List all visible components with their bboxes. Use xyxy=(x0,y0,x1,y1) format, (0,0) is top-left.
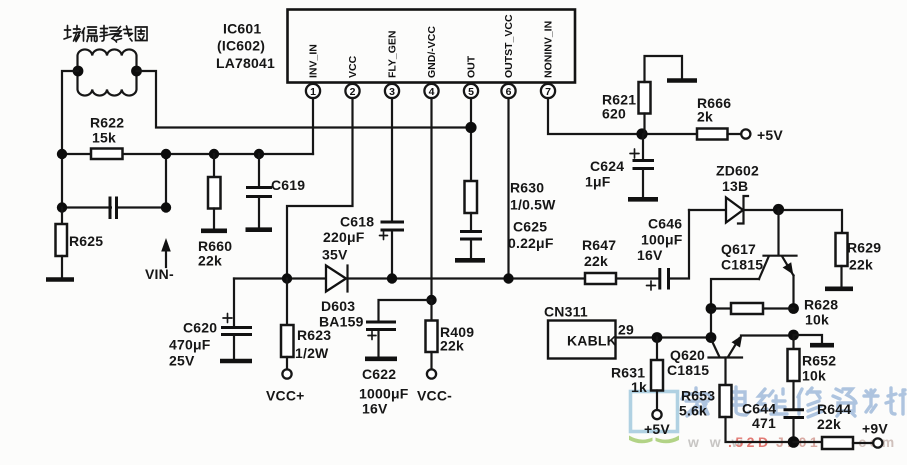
resistor R625 body xyxy=(56,224,68,256)
wire C644 bottom xyxy=(792,419,794,442)
terminal +5V top xyxy=(741,129,750,138)
svg-text:ZD602: ZD602 xyxy=(716,163,759,179)
wire rail C646 right segment xyxy=(616,277,659,279)
svg-text:C646: C646 xyxy=(648,216,682,232)
wire main top rail xyxy=(62,153,313,155)
wire R644 to terminal xyxy=(853,442,873,444)
svg-text:VCC: VCC xyxy=(347,55,359,78)
svg-text:4: 4 xyxy=(429,86,435,98)
resistor R666 body xyxy=(697,129,728,140)
capacitor C619 plates xyxy=(246,188,272,197)
wire R652 to C644 xyxy=(792,381,794,408)
svg-text:1: 1 xyxy=(310,86,316,98)
coil label 场偏转线圈 xyxy=(64,26,147,43)
svg-text:OUT: OUT xyxy=(466,55,478,78)
svg-text:10k: 10k xyxy=(802,368,826,384)
node main rail C619 xyxy=(254,149,264,159)
watermark logo book icon xyxy=(629,392,679,444)
svg-text:22k: 22k xyxy=(849,257,873,273)
capacitor C644 plates xyxy=(784,410,805,418)
transistor Q617 xyxy=(759,210,797,310)
node bottom rail xyxy=(788,436,800,448)
wire coil left to main rail xyxy=(62,71,78,154)
capacitor C646 plates xyxy=(660,268,669,290)
C624 polarity + xyxy=(630,149,639,158)
resistor R621 body xyxy=(639,82,651,114)
wire vcc rail xyxy=(234,277,585,279)
svg-text:1μF: 1μF xyxy=(585,174,611,190)
VIN- input arrow xyxy=(161,238,171,252)
node pin5 coil junction xyxy=(465,122,476,133)
node Q620 emitter line xyxy=(788,330,799,341)
svg-text:C1815: C1815 xyxy=(721,257,763,273)
pin 6 circle xyxy=(501,84,515,98)
wire R625 bottom xyxy=(61,256,63,278)
wire R660 bottom xyxy=(213,209,215,229)
pin 5 circle xyxy=(464,84,478,98)
svg-text:5.6k: 5.6k xyxy=(679,403,707,419)
svg-text:C619: C619 xyxy=(271,177,305,193)
pin 7 circle xyxy=(541,84,555,98)
svg-text:471: 471 xyxy=(752,415,776,431)
zener diode ZD602 xyxy=(726,196,748,224)
wire ground stub xyxy=(794,335,823,343)
svg-text:C625: C625 xyxy=(513,219,547,235)
svg-text:2: 2 xyxy=(350,86,356,98)
svg-text:1/0.5W: 1/0.5W xyxy=(510,197,556,213)
node R628 right xyxy=(788,303,799,314)
wire C620 bottom xyxy=(233,336,235,359)
pin 3 circle xyxy=(385,84,399,98)
svg-text:22k: 22k xyxy=(440,338,464,354)
svg-text:R652: R652 xyxy=(802,353,836,369)
node rail R623 xyxy=(282,273,292,283)
C646 polarity + xyxy=(647,281,656,290)
terminal +5V bottom xyxy=(652,410,661,419)
wire R652 top xyxy=(792,335,794,349)
wire C624 bottom xyxy=(642,170,644,197)
pin 4 circle xyxy=(424,84,438,98)
wire R625 top xyxy=(61,208,63,225)
wire R409 top xyxy=(430,300,432,321)
svg-text:1000μF: 1000μF xyxy=(359,386,409,402)
ground below R625 xyxy=(46,277,74,282)
svg-text:CN311: CN311 xyxy=(544,304,588,320)
svg-text:R622: R622 xyxy=(90,115,124,131)
svg-text:C618: C618 xyxy=(340,214,374,230)
svg-text:+5V: +5V xyxy=(757,127,783,143)
svg-text:3: 3 xyxy=(389,86,395,98)
wire R666 to terminal xyxy=(728,133,742,135)
svg-text:10k: 10k xyxy=(805,312,829,328)
svg-text:22k: 22k xyxy=(584,253,608,269)
wire R621 bottom xyxy=(643,114,645,135)
svg-text:R629: R629 xyxy=(847,240,881,256)
wire R621 top to ground xyxy=(645,56,683,82)
svg-text:C1815: C1815 xyxy=(667,362,709,378)
ground stub bar xyxy=(810,343,834,348)
terminal VCC- xyxy=(427,369,436,378)
resistor R623 body xyxy=(281,325,294,357)
resistor R644 body xyxy=(822,437,853,449)
wire R628 leads xyxy=(711,307,794,309)
wire pin5 down xyxy=(470,98,472,181)
wire vin vertical xyxy=(165,154,167,208)
wire R409 bottom xyxy=(430,352,432,370)
svg-text:R623: R623 xyxy=(297,327,331,343)
resistor R652 body xyxy=(788,349,800,381)
capacitor C624 plates xyxy=(633,161,655,169)
capacitor C625 plates xyxy=(460,232,482,240)
wire R630 to C625 xyxy=(470,213,472,230)
ground below R629 xyxy=(825,286,853,291)
svg-text:R644: R644 xyxy=(817,401,851,417)
svg-text:R647: R647 xyxy=(582,237,616,253)
svg-text:22k: 22k xyxy=(817,416,841,432)
svg-text:KABLK: KABLK xyxy=(567,333,617,349)
node pin4 C622 junction xyxy=(426,295,436,305)
svg-text:GND/-VCC: GND/-VCC xyxy=(426,26,438,78)
svg-text:LA78041: LA78041 xyxy=(216,55,275,71)
connector CN311 xyxy=(548,321,616,359)
svg-text:NONINV_IN: NONINV_IN xyxy=(543,21,555,78)
wire pin4 down xyxy=(430,98,432,300)
ground top right xyxy=(667,78,697,83)
svg-text:100μF: 100μF xyxy=(641,232,683,248)
transistor Q620 xyxy=(709,335,794,385)
wire R631 bottom xyxy=(656,391,658,411)
deflection yoke coil L xyxy=(78,49,137,95)
svg-text:7: 7 xyxy=(545,86,551,98)
wire C646 to zener line xyxy=(669,210,689,279)
svg-text:D603: D603 xyxy=(321,298,355,314)
svg-text:22k: 22k xyxy=(198,253,222,269)
wire KABLK to Q620 xyxy=(616,336,712,338)
svg-text:6: 6 xyxy=(506,86,512,98)
wire R629 bottom xyxy=(840,266,842,287)
svg-text:+5V: +5V xyxy=(644,421,670,437)
resistor R653 body xyxy=(720,385,732,417)
node lower vin xyxy=(161,202,171,212)
ground bar below C622 xyxy=(365,356,397,361)
resistor R631 body xyxy=(651,360,663,391)
svg-text:R625: R625 xyxy=(69,233,103,249)
svg-text:620: 620 xyxy=(602,106,626,122)
resistor R622 body xyxy=(91,149,123,160)
svg-text:(IC602): (IC602) xyxy=(217,38,265,54)
svg-text:25V: 25V xyxy=(169,353,195,369)
resistor R409 body xyxy=(426,321,438,353)
wire R660 top xyxy=(213,154,215,177)
svg-text:16V: 16V xyxy=(362,401,388,417)
node R621 R666 junction xyxy=(636,128,647,139)
svg-text:13B: 13B xyxy=(722,178,748,194)
wire C622 branch xyxy=(379,300,432,321)
svg-text:Q620: Q620 xyxy=(670,347,705,363)
wire R623 top xyxy=(286,279,288,326)
ground below C624 xyxy=(628,197,658,202)
wire C622 bottom xyxy=(377,331,379,357)
resistor R629 body xyxy=(836,233,848,266)
node R631 junction xyxy=(652,332,663,343)
wire R653 to bottom rail xyxy=(726,417,794,442)
ground bar below C620 xyxy=(220,359,252,364)
svg-text:29: 29 xyxy=(618,322,634,338)
wire pin2 to vcc rail xyxy=(287,98,353,279)
wire pin3 to C618 xyxy=(391,98,393,221)
wire Q617 base left xyxy=(711,279,759,338)
svg-text:C620: C620 xyxy=(183,320,217,336)
resistor R660 body xyxy=(208,177,221,209)
svg-text:VCC-: VCC- xyxy=(417,388,452,404)
C618 polarity + xyxy=(380,232,388,240)
svg-text:VCC+: VCC+ xyxy=(266,388,305,404)
wire zener line xyxy=(689,210,842,233)
wire C619 top xyxy=(258,154,260,186)
svg-text:2k: 2k xyxy=(697,109,713,125)
wire C619 bottom xyxy=(258,198,260,228)
svg-text:1/2W: 1/2W xyxy=(295,345,329,361)
watermark chinese text 家电维修资料网 xyxy=(682,387,905,417)
node rail pin6 xyxy=(503,273,513,283)
svg-text:R630: R630 xyxy=(510,180,544,196)
resistor R630 body xyxy=(465,181,478,213)
capacitor C622 plates xyxy=(366,322,396,330)
svg-text:220μF: 220μF xyxy=(323,229,365,245)
node main rail R660 xyxy=(209,149,219,159)
capacitor C618 plates xyxy=(381,222,405,230)
IC U601 box LA78041 xyxy=(288,10,576,83)
wire R631 top xyxy=(656,338,658,361)
svg-text:VIN-: VIN- xyxy=(145,266,174,282)
ground below C619 xyxy=(246,227,273,232)
diode D603 xyxy=(326,266,348,292)
node rail C618 xyxy=(387,273,397,283)
svg-text:35V: 35V xyxy=(322,247,348,263)
svg-text:Q617: Q617 xyxy=(721,241,756,257)
node main rail left xyxy=(57,149,67,159)
svg-text:OUTST_VCC: OUTST_VCC xyxy=(503,14,515,78)
svg-text:15k: 15k xyxy=(92,130,116,146)
wire R623 bottom xyxy=(286,357,288,370)
wire C618 to rail xyxy=(391,230,393,279)
node main rail vin xyxy=(161,149,171,159)
coil left terminal node xyxy=(73,66,84,77)
ground below C625 xyxy=(455,258,485,263)
capacitor C620 plates xyxy=(221,328,252,335)
svg-text:R653: R653 xyxy=(681,388,715,404)
wire C620 drop from rail xyxy=(233,279,235,327)
svg-text:0.22μF: 0.22μF xyxy=(508,235,554,251)
wire pin1 drop xyxy=(312,98,314,154)
wire lower left line with cap xyxy=(62,154,166,208)
node R628 left xyxy=(706,303,717,314)
svg-text:16V: 16V xyxy=(637,247,663,263)
pin 1 circle xyxy=(306,84,320,98)
svg-text:5: 5 xyxy=(468,86,474,98)
svg-text:R628: R628 xyxy=(804,297,838,313)
wire pin7 to +5V line xyxy=(548,98,697,134)
node zener Q617 junction xyxy=(773,204,784,215)
wire pin6 down to rail xyxy=(507,98,509,279)
svg-text:FLY_GEN: FLY_GEN xyxy=(387,31,399,78)
node Q620 collector junction xyxy=(706,332,717,343)
node lower left xyxy=(57,202,67,212)
resistor R647 body xyxy=(585,273,616,284)
wire bottom rail to R644 xyxy=(794,441,823,443)
wire coil right to pin5 junction xyxy=(137,71,472,128)
pin 2 circle xyxy=(345,84,359,98)
wire C625 bottom xyxy=(470,241,472,259)
C620 polarity + xyxy=(223,314,232,323)
capacitor (feedback, unlabeled) plates xyxy=(110,197,117,220)
svg-text:C622: C622 xyxy=(362,366,396,382)
wire C624 drop xyxy=(642,134,644,159)
ground below R660 xyxy=(201,229,227,234)
resistor R628 body xyxy=(731,303,763,314)
svg-text:1k: 1k xyxy=(631,379,647,395)
svg-text:470μF: 470μF xyxy=(169,337,211,353)
svg-text:+9V: +9V xyxy=(862,421,888,437)
svg-text:IC601: IC601 xyxy=(223,21,261,37)
terminal VCC+ xyxy=(282,369,291,378)
C622 polarity + xyxy=(368,332,376,340)
terminal +9V xyxy=(873,438,882,447)
svg-text:INV_IN: INV_IN xyxy=(308,44,320,78)
svg-text:C624: C624 xyxy=(590,158,624,174)
coil right terminal node xyxy=(131,66,142,77)
